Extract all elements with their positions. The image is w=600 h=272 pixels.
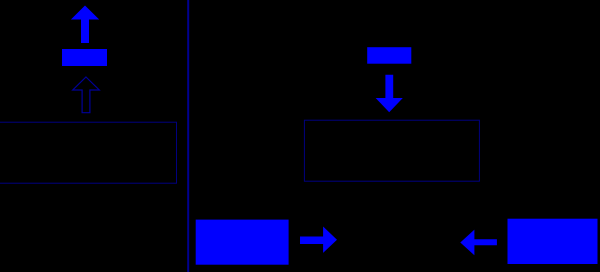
bottom left filled rect — [196, 220, 289, 265]
filled rect right-top — [367, 47, 411, 64]
bottom right filled rect — [508, 219, 598, 264]
left-pointing arrow — [460, 230, 497, 256]
divider line — [187, 0, 189, 272]
filled rect top-left — [62, 49, 107, 66]
outlined rect left — [0, 122, 177, 183]
right-pointing arrow — [300, 227, 337, 253]
filled down arrow — [376, 75, 403, 112]
outlined rect right — [304, 120, 479, 181]
filled up arrow — [71, 6, 99, 44]
hollow up arrow — [73, 77, 100, 113]
